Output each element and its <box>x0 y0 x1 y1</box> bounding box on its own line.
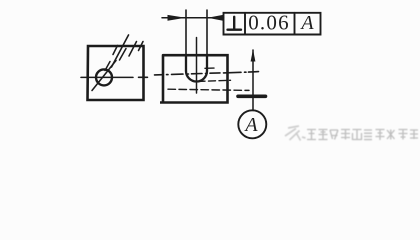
hole circle <box>96 69 112 85</box>
frame divider 2 <box>294 13 296 35</box>
datum stem arrowhead <box>251 49 256 61</box>
slot right wall + extension line <box>206 10 208 71</box>
slot left wall + extension line <box>185 10 187 71</box>
right arrowhead <box>208 15 224 21</box>
hidden dashed line lower <box>168 89 249 90</box>
horizontal center line of hole <box>81 76 148 78</box>
hatch stroke <box>139 42 144 51</box>
svg-text:0.06: 0.06 <box>248 10 290 34</box>
hidden dashed line upper short <box>205 67 214 69</box>
leader / dimension line <box>162 17 224 19</box>
inclined center line through circle <box>92 61 116 91</box>
datum circle <box>238 110 266 138</box>
svg-text:A: A <box>299 12 314 34</box>
left arrowhead <box>168 15 186 21</box>
frame divider 1 <box>244 13 246 35</box>
middle part outline <box>160 55 228 102</box>
datum leader stem <box>252 50 254 111</box>
slot bottom U arc <box>186 71 207 82</box>
hatch stroke <box>105 62 110 71</box>
long hatch line crossing top edge <box>112 35 129 67</box>
left square part outline <box>88 46 144 100</box>
hatch stroke <box>113 46 118 55</box>
horizontal center line dash-dot <box>155 72 259 75</box>
watermark text blobs <box>307 130 418 141</box>
perpendicularity symbol <box>228 17 242 30</box>
feature control frame <box>224 13 321 35</box>
slot vertical center line <box>196 38 198 94</box>
slot wall thick part <box>186 55 207 71</box>
hidden dashed line mid <box>198 80 231 81</box>
hatch stroke <box>129 42 137 57</box>
watermark logo <box>285 126 306 141</box>
hatch stroke <box>120 49 127 61</box>
datum bar <box>238 95 266 99</box>
svg-text:A: A <box>243 114 258 136</box>
